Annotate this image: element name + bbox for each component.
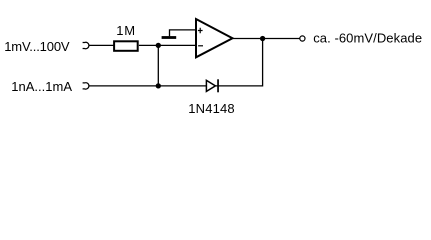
diode D1 cathode bar xyxy=(217,79,219,92)
svg-text:1M: 1M xyxy=(116,23,136,38)
terminal IN2 xyxy=(83,83,89,89)
resistor R1 1M xyxy=(114,41,138,51)
node A junction dot xyxy=(156,43,161,48)
ground xyxy=(162,36,177,39)
wire node A down to node B xyxy=(157,45,159,86)
svg-text:1mV...100V: 1mV...100V xyxy=(4,39,70,54)
node C junction dot xyxy=(260,36,265,41)
pin - (inverting) xyxy=(198,45,203,47)
node B junction dot xyxy=(156,83,161,88)
diode D1 xyxy=(206,80,215,91)
wire feedback down and left xyxy=(89,39,263,86)
svg-text:1N4148: 1N4148 xyxy=(188,101,234,116)
wire R1 to op-amp inverting input xyxy=(139,44,196,46)
wire non-inverting input xyxy=(170,30,197,36)
wire IN1 to R1 xyxy=(89,44,114,46)
terminal OUT xyxy=(300,36,305,41)
terminal IN1 xyxy=(83,42,89,48)
op-amp U1 xyxy=(196,19,233,57)
pin + (non-inverting) xyxy=(198,28,203,33)
svg-text:ca. -60mV/Dekade: ca. -60mV/Dekade xyxy=(313,31,422,46)
wire op-amp output xyxy=(233,38,300,40)
svg-text:1nA...1mA: 1nA...1mA xyxy=(11,79,72,94)
